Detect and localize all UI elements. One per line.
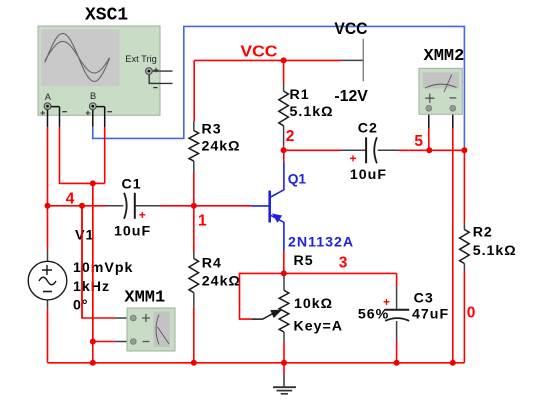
svg-text:+: + (350, 152, 357, 166)
wire emitter red down to node3 (283, 251, 285, 274)
XSC1 Ext Trig stub wires (149, 68, 172, 88)
svg-text:10uF: 10uF (114, 224, 151, 240)
svg-text:Ext Trig: Ext Trig (125, 54, 157, 64)
resistor R4 24k (189, 252, 199, 307)
wire A-/B- ground link (60, 127, 105, 183)
svg-text:5.1kΩ: 5.1kΩ (473, 243, 517, 259)
VCC power symbol -12V (362, 39, 364, 82)
wire node2 horizontal (284, 149, 341, 151)
wire C3 bottom to rail (396, 340, 398, 363)
wire R3 bottom to node 1 (193, 172, 195, 205)
XSC1 channel A terminal (40, 92, 67, 115)
svg-text:24kΩ: 24kΩ (202, 274, 241, 290)
wire ground branch overdraw (92, 183, 94, 340)
oscilloscope XSC1 body (38, 26, 160, 115)
svg-text:24kΩ: 24kΩ (202, 139, 241, 155)
svg-text:3: 3 (339, 255, 348, 272)
wire XMM2 minus lead to rail (452, 128, 454, 363)
wire left column VCC to R3 (193, 60, 195, 121)
svg-text:+: + (383, 295, 390, 309)
svg-text:VCC: VCC (240, 44, 277, 61)
XSC1 channel B terminal (86, 91, 112, 115)
svg-text:10kΩ: 10kΩ (294, 296, 333, 312)
wire pot wiper loop (240, 273, 284, 319)
wire pot bottom to rail (283, 342, 285, 362)
wire XMM1 plus branch overdraw (81, 206, 83, 318)
svg-text:XMM2: XMM2 (424, 47, 465, 66)
svg-text:R2: R2 (473, 225, 493, 241)
resistor R3 24k (189, 121, 199, 172)
svg-text:XMM1: XMM1 (124, 289, 165, 308)
svg-text:R3: R3 (202, 122, 222, 138)
capacitor C3 47uF (385, 273, 409, 340)
wire bottom ground rail (48, 362, 465, 364)
svg-text:+: + (139, 208, 146, 222)
wire node5 to R2 (463, 150, 465, 222)
svg-text:R1: R1 (290, 87, 310, 103)
svg-text:R5: R5 (294, 253, 314, 269)
ground symbol (273, 375, 296, 394)
wire scope B+ blue run to node 5 (93, 26, 465, 150)
svg-text:1kHz: 1kHz (73, 279, 110, 295)
wire XMM1 plus branch (82, 206, 116, 318)
svg-text:A: A (45, 92, 52, 102)
capacitor C2 10uF (341, 137, 399, 163)
svg-text:0: 0 (467, 305, 476, 322)
svg-text:-12V: -12V (334, 88, 368, 105)
svg-text:XSC1: XSC1 (85, 6, 128, 26)
svg-text:C2: C2 (358, 121, 378, 137)
wire ground stem (283, 363, 285, 375)
wire node3 horizontal (284, 272, 397, 274)
svg-text:0°: 0° (73, 298, 89, 314)
wire A+ lead down to node 4 and V1 (47, 127, 49, 250)
svg-text:C1: C1 (122, 177, 142, 193)
resistor R1 5.1k (279, 83, 289, 147)
svg-text:5: 5 (414, 133, 423, 150)
wire node5 horizontal (399, 149, 465, 151)
svg-text:VCC: VCC (334, 20, 367, 38)
wire node 1 to R4 (193, 206, 195, 252)
svg-text:R4: R4 (202, 256, 222, 272)
multimeter XMM2 (419, 68, 462, 128)
wire VCC rail (194, 59, 341, 61)
XSC1 Ext Trig terminal (146, 68, 153, 75)
svg-text:47uF: 47uF (412, 307, 449, 323)
wire collector red segment (283, 150, 285, 162)
wire base (red part) (159, 205, 251, 207)
svg-text:C3: C3 (414, 291, 434, 307)
svg-text:Q1: Q1 (288, 172, 307, 187)
capacitor C1 10uF (106, 193, 159, 219)
wire XMM1 minus tap (93, 341, 116, 343)
svg-text:2N1132A: 2N1132A (288, 235, 354, 251)
wire XMM2 plus lead to node 5 (428, 128, 430, 150)
resistor R2 5.1k (460, 222, 470, 271)
wire R4 bottom to rail (193, 307, 195, 363)
potentiometer R5 10k (251, 273, 288, 342)
svg-text:V1: V1 (75, 228, 94, 244)
AC source V1 (28, 250, 67, 309)
XSC1 A/B terminal pin stubs (48, 107, 105, 127)
wire node4/node1 horizontal (48, 205, 107, 207)
wire R1 bottom to node 2 (283, 147, 285, 151)
transistor Q1 2N1132A PNP (251, 162, 284, 251)
svg-text:2: 2 (286, 128, 295, 145)
wire VCC to R1 (283, 60, 285, 83)
svg-text:10uF: 10uF (350, 167, 387, 183)
wire ground branch down (92, 183, 94, 362)
svg-text:B: B (90, 91, 96, 101)
svg-text:1: 1 (198, 213, 207, 230)
multimeter XMM1 (116, 308, 175, 351)
wire V1 bottom to rail (47, 309, 49, 363)
svg-text:Key=A: Key=A (294, 319, 344, 335)
svg-text:4: 4 (66, 191, 75, 208)
wire R2 bottom to rail (463, 271, 465, 363)
wire VCC supply lead (341, 59, 363, 61)
svg-text:5.1kΩ: 5.1kΩ (290, 104, 334, 120)
